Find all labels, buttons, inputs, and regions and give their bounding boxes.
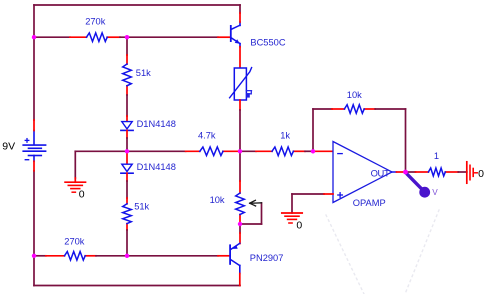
pot wiper link xyxy=(240,203,262,224)
svg-text:9V: 9V xyxy=(2,141,15,153)
wire Q2 collector to bottom rail xyxy=(239,274,241,286)
ground 0 mid-left xyxy=(65,182,85,192)
diode D2 D1N4148 xyxy=(121,164,133,173)
svg-text:0: 0 xyxy=(79,188,85,200)
wire left rail xyxy=(33,5,35,120)
wire RT1 to mid node xyxy=(239,100,241,151)
svg-text:PN2907: PN2907 xyxy=(250,253,284,263)
wire pot node to Q2 emitter xyxy=(239,224,241,233)
resistor R 10k feedback xyxy=(344,105,364,114)
wire row Q2 base net xyxy=(34,255,229,257)
svg-text:OPAMP: OPAMP xyxy=(353,198,386,208)
resistor R 270k bottom xyxy=(65,252,86,261)
resistor R 4.7k xyxy=(200,147,223,156)
wire mid row y=151.3 xyxy=(75,150,333,152)
svg-text:V: V xyxy=(432,188,438,197)
svg-text:D1N4148: D1N4148 xyxy=(137,162,176,172)
wire column x=127 upper xyxy=(126,37,128,121)
svg-text:1: 1 xyxy=(434,151,439,161)
wire diode1 to mid node xyxy=(126,130,128,164)
wire top rail xyxy=(34,4,240,6)
wire column x=127 lower xyxy=(126,173,128,256)
thermistor RT1 xyxy=(230,68,252,100)
svg-text:1k: 1k xyxy=(280,130,290,140)
junction node dots xyxy=(32,35,408,258)
svg-text:BC550C: BC550C xyxy=(250,37,285,47)
wire ground stub mid-left xyxy=(74,151,76,182)
wire feedback loop xyxy=(313,109,406,172)
potentiometer R 10k xyxy=(236,193,245,215)
svg-text:4.7k: 4.7k xyxy=(198,130,216,140)
svg-text:0: 0 xyxy=(296,219,302,231)
wire Q1 emitter to RT1 xyxy=(239,47,241,68)
wire opamp output xyxy=(392,171,467,173)
ground 0 opamp xyxy=(282,213,302,223)
svg-text:51k: 51k xyxy=(134,202,149,212)
svg-text:OUT: OUT xyxy=(371,168,390,179)
svg-text:51k: 51k xyxy=(136,68,151,78)
resistor R 51k bottom xyxy=(123,204,132,224)
wire row Q1 base net xyxy=(34,36,230,38)
resistor R 270k top xyxy=(87,33,108,42)
svg-text:270k: 270k xyxy=(64,236,85,246)
svg-text:10k: 10k xyxy=(347,90,362,100)
wire mid node down to pot xyxy=(239,151,241,224)
ground 0 right xyxy=(467,162,477,183)
svg-text:10k: 10k xyxy=(210,195,225,205)
svg-text:270k: 270k xyxy=(85,17,106,27)
resistor R 51k top xyxy=(123,64,132,86)
svg-text:D1N4148: D1N4148 xyxy=(137,119,176,129)
pot wiper arrow xyxy=(250,200,262,206)
op-amp U1 xyxy=(333,142,392,203)
svg-text:0: 0 xyxy=(478,168,484,180)
resistor R 1k xyxy=(272,147,293,156)
diode D1 D1N4148 xyxy=(121,122,133,131)
battery V1 9V xyxy=(23,131,45,162)
wire left rail lower xyxy=(33,171,35,286)
transistor Q1 BC550C xyxy=(230,22,240,47)
wire Q1 collector xyxy=(239,5,241,13)
resistor R 1 ohm xyxy=(428,168,445,176)
battery leads red xyxy=(33,120,35,131)
wire bottom rail xyxy=(34,285,240,287)
transistor Q2 PN2907 xyxy=(229,243,240,273)
wire opamp plus input xyxy=(292,194,333,213)
probe V marker xyxy=(407,174,438,198)
